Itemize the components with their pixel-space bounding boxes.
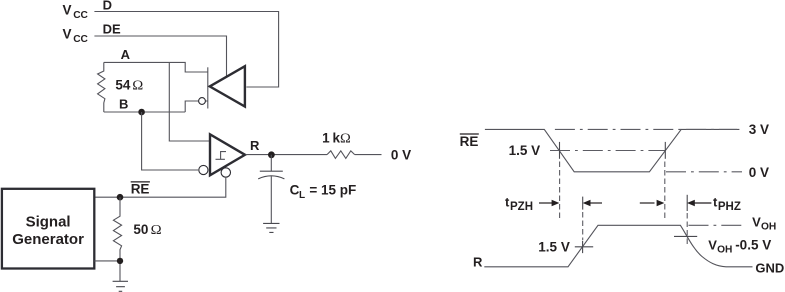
svg-text:Ω: Ω bbox=[132, 78, 143, 93]
svg-text:54: 54 bbox=[115, 77, 131, 92]
label VOH -0.5 V bbox=[708, 237, 771, 255]
label CL = 15 pF bbox=[290, 182, 357, 201]
svg-text:Signal: Signal bbox=[26, 214, 71, 231]
svg-text:R: R bbox=[250, 138, 260, 153]
svg-text:Ω: Ω bbox=[151, 223, 162, 238]
ground (signal generator) bbox=[113, 281, 128, 291]
tick R rising edge 1.5 V crossing bbox=[575, 241, 593, 253]
solid tick tPHZ end bbox=[686, 195, 688, 211]
wire signal generator bottom to ground bbox=[94, 261, 120, 281]
driver U1 inverting output bubble bbox=[199, 98, 206, 105]
dashed vertical tPZH end bbox=[582, 212, 584, 240]
svg-text:B: B bbox=[119, 96, 128, 111]
arrow tPHZ left bbox=[640, 200, 665, 207]
driver U1 inverting output stub bbox=[185, 101, 208, 112]
svg-text:A: A bbox=[121, 47, 131, 62]
svg-text:D: D bbox=[103, 0, 112, 12]
junction node R / CL bbox=[268, 151, 275, 158]
capacitor CL bbox=[258, 155, 284, 224]
svg-text:RE: RE bbox=[131, 182, 150, 197]
level line 3 V dash-dot bbox=[555, 128, 737, 130]
label 1 kohm bbox=[322, 131, 351, 147]
signal generator box bbox=[2, 189, 94, 269]
wire DE: VCC to driver enable bbox=[94, 36, 226, 77]
svg-text:3 V: 3 V bbox=[749, 122, 769, 137]
label tPHZ bbox=[713, 195, 741, 214]
label VCC (D supply) bbox=[63, 3, 89, 22]
dashed vertical tPHZ start bbox=[664, 162, 666, 219]
solid tick tPZH end bbox=[582, 197, 584, 210]
svg-text:PZH: PZH bbox=[510, 201, 533, 213]
svg-text:OH: OH bbox=[717, 245, 732, 256]
svg-text:50: 50 bbox=[133, 222, 148, 237]
svg-text:1.5 V: 1.5 V bbox=[509, 143, 541, 158]
label RE (enable input) bbox=[131, 182, 150, 197]
wire receiver output to 1 kohm bbox=[246, 154, 328, 156]
svg-text:R: R bbox=[473, 254, 483, 269]
svg-text:CC: CC bbox=[73, 34, 88, 45]
svg-text:PHZ: PHZ bbox=[718, 201, 741, 213]
svg-text:V: V bbox=[63, 27, 72, 42]
label 54 ohm bbox=[115, 77, 143, 93]
bubble receiver inverting input bbox=[199, 165, 208, 174]
arrow tPZH left bbox=[539, 200, 559, 207]
svg-text:-0.5 V: -0.5 V bbox=[735, 237, 771, 252]
svg-text:CC: CC bbox=[73, 10, 88, 21]
resistor R3 1 kohm bbox=[327, 151, 355, 159]
bubble receiver enable bbox=[221, 168, 230, 177]
svg-text:V: V bbox=[63, 3, 72, 18]
level line 0 V dash-dot bbox=[666, 171, 742, 173]
junction node ground / 50 ohm bbox=[117, 258, 123, 264]
ground (CL) bbox=[263, 223, 279, 232]
wire A branch to receiver noninverting input bbox=[169, 62, 209, 141]
label RE (waveform) bbox=[460, 134, 479, 149]
svg-text:DE: DE bbox=[103, 21, 121, 36]
svg-text:RE: RE bbox=[460, 134, 479, 149]
svg-text:OH: OH bbox=[761, 222, 776, 233]
tick RE rising edge 1.5 V crossing bbox=[664, 142, 666, 159]
dashed vertical tPHZ end bbox=[686, 213, 688, 244]
level line VOH dash-dot bbox=[689, 224, 747, 226]
arrow tPHZ right bbox=[687, 200, 711, 207]
waveform R trace bbox=[484, 225, 752, 266]
svg-text:0 V: 0 V bbox=[391, 147, 411, 162]
hysteresis symbol bbox=[216, 152, 227, 160]
label 50 ohm bbox=[133, 222, 161, 238]
wire 1 kohm to 0 V bbox=[355, 154, 382, 156]
driver U1 triangle bbox=[210, 66, 245, 106]
svg-text:V: V bbox=[752, 214, 761, 229]
wire D: VCC to driver input bbox=[94, 12, 278, 88]
dashed vertical tPZH start bbox=[559, 162, 561, 222]
resistor R2 50 ohm bbox=[113, 197, 121, 261]
label Signal Generator bbox=[12, 214, 84, 249]
svg-text:= 15 pF: = 15 pF bbox=[309, 182, 356, 197]
driver U1 output bar bbox=[207, 67, 209, 108]
svg-text:V: V bbox=[708, 237, 717, 252]
junction node B bbox=[138, 109, 145, 116]
svg-text:1: 1 bbox=[322, 131, 330, 146]
wire RE from signal generator to receiver enable bbox=[94, 177, 226, 197]
tick R falling edge VOH-0.5 crossing bbox=[674, 235, 697, 237]
label VOH bbox=[752, 214, 776, 232]
svg-text:Generator: Generator bbox=[12, 231, 84, 248]
waveform RE trace bbox=[485, 129, 740, 171]
wire A: resistor top to driver noninverting output bbox=[104, 62, 208, 72]
resistor R1 54 ohm bbox=[98, 62, 105, 112]
arrow tPZH right bbox=[583, 200, 602, 207]
junction node RE / 50 ohm bbox=[117, 194, 124, 201]
tick RE falling edge 1.5 V crossing bbox=[559, 142, 561, 159]
svg-text:GND: GND bbox=[755, 260, 784, 275]
svg-text:1.5 V: 1.5 V bbox=[538, 240, 570, 255]
svg-text:0 V: 0 V bbox=[749, 165, 769, 180]
svg-text:L: L bbox=[299, 190, 305, 201]
svg-text:Ω: Ω bbox=[340, 132, 351, 147]
label tPZH bbox=[505, 195, 533, 214]
level line 1.5 V dash-dot bbox=[550, 150, 665, 152]
wire node B to receiver inverting input bbox=[142, 112, 199, 170]
receiver U2 triangle bbox=[210, 134, 245, 175]
wire B: resistor bottom to driver inverting output bbox=[104, 111, 185, 113]
label VCC (DE supply) bbox=[63, 27, 89, 46]
